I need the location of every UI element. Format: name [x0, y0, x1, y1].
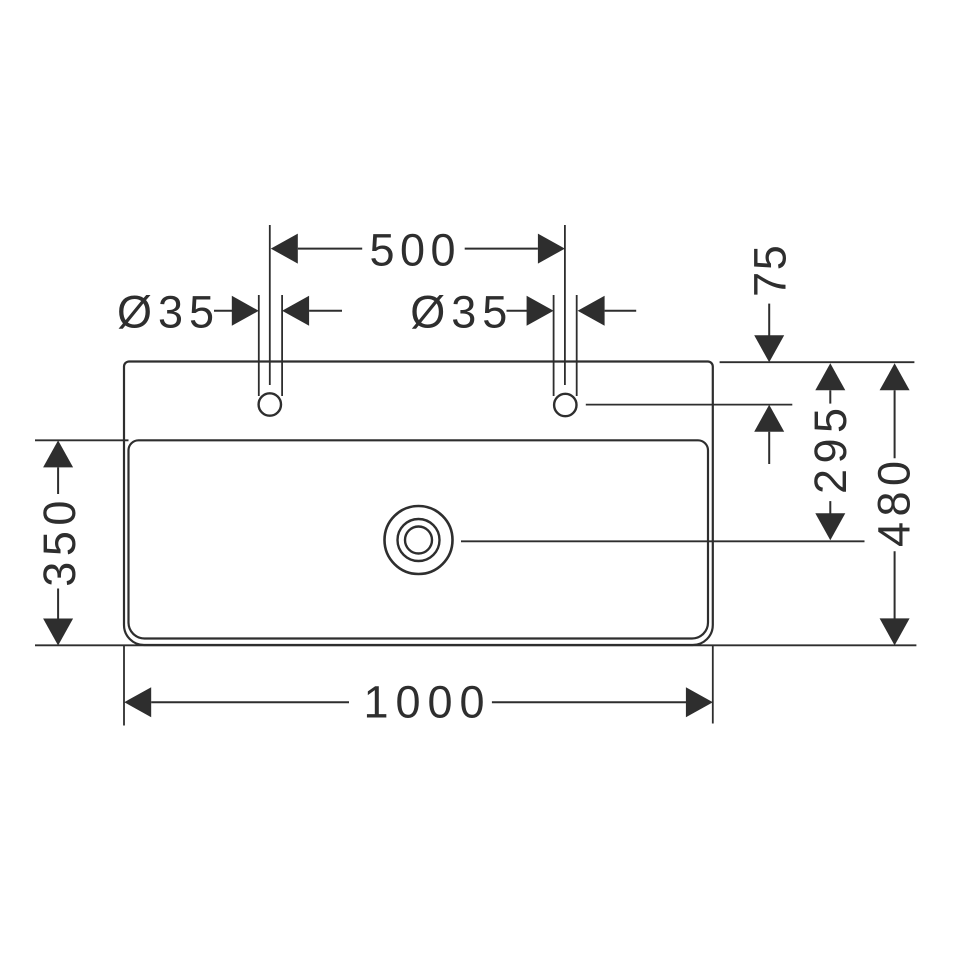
- svg-text:Ø35: Ø35: [410, 286, 513, 337]
- basin inner bowl outline: [129, 440, 709, 638]
- left faucet hole: [259, 393, 281, 415]
- extension line drain axis right: [461, 540, 865, 542]
- dim line 75 lower segment: [768, 432, 770, 464]
- center line left hole: [269, 225, 271, 385]
- dim line O35 right lead-in: [507, 310, 528, 312]
- dim line 350 upper segment: [57, 467, 59, 494]
- arrowhead 350 down: [43, 619, 73, 646]
- arrowhead 295 down: [815, 513, 845, 540]
- svg-text:480: 480: [869, 455, 920, 547]
- drain middle circle: [398, 519, 440, 561]
- extension line outer right edge down: [712, 645, 714, 724]
- center line right hole: [564, 225, 566, 385]
- dim line 1000 right segment: [492, 701, 686, 703]
- dim line 480 upper segment: [894, 390, 896, 458]
- arrowhead 75 up: [754, 405, 784, 432]
- svg-text:1000: 1000: [363, 677, 491, 728]
- drain inner circle: [405, 527, 432, 554]
- extension line bowl top left: [35, 439, 129, 441]
- dim line O35 left lead-in: [214, 310, 233, 312]
- extension line top edge right: [720, 361, 915, 363]
- arrowhead 500 left: [271, 234, 298, 264]
- arrowhead 1000 right: [686, 687, 713, 717]
- dim line 1000 left segment: [151, 701, 349, 703]
- tangent line right hole right: [576, 295, 578, 396]
- dim line 350 lower segment: [57, 589, 59, 619]
- arrowhead 295 up: [815, 363, 845, 390]
- arrowhead O35 left inner: [282, 296, 309, 326]
- arrowhead O35 right outer: [527, 296, 554, 326]
- dim line 75 upper segment: [768, 304, 770, 336]
- dim line 295 upper segment: [829, 390, 831, 403]
- extension line bottom edge: [35, 644, 916, 646]
- arrowhead 1000 left: [124, 687, 151, 717]
- svg-text:350: 350: [34, 495, 85, 587]
- arrowhead O35 left outer: [232, 296, 259, 326]
- extension line faucet hole axis right: [586, 404, 793, 406]
- tangent line left hole right: [281, 295, 283, 396]
- arrowhead 350 up: [43, 440, 73, 467]
- right faucet hole: [554, 394, 576, 416]
- dim line 295 lower segment: [829, 501, 831, 513]
- drain outer circle: [385, 506, 453, 574]
- dim line 500 right segment: [465, 248, 538, 250]
- arrowhead O35 right inner: [578, 296, 605, 326]
- tangent line left hole left: [258, 295, 260, 396]
- svg-text:295: 295: [805, 402, 856, 494]
- washbasin outer outline: [124, 362, 713, 646]
- dim line O35 left tail: [309, 310, 342, 312]
- arrowhead 480 up: [880, 363, 910, 390]
- dim line 500 left segment: [298, 248, 362, 250]
- extension line outer left edge down: [123, 645, 125, 726]
- dim line 480 lower segment: [894, 551, 896, 618]
- svg-text:500: 500: [370, 224, 462, 275]
- svg-text:Ø35: Ø35: [117, 286, 220, 337]
- arrowhead 480 down: [880, 618, 910, 645]
- tangent line right hole left: [553, 295, 555, 396]
- dim line O35 right tail: [605, 310, 637, 312]
- svg-text:75: 75: [745, 244, 796, 297]
- arrowhead 75 down: [754, 335, 784, 362]
- arrowhead 500 right: [538, 234, 565, 264]
